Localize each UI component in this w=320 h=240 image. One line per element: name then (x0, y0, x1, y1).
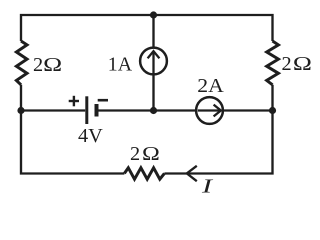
svg-text:2A: 2A (197, 75, 224, 97)
svg-text:2: 2 (282, 53, 292, 75)
svg-text:Ω: Ω (43, 54, 62, 76)
svg-text:4V: 4V (78, 125, 103, 147)
svg-text:Ω: Ω (142, 143, 160, 165)
svg-text:1A: 1A (108, 53, 133, 75)
svg-text:2: 2 (130, 143, 140, 165)
svg-text:Ω: Ω (293, 53, 312, 75)
svg-text:I: I (201, 175, 214, 197)
svg-text:2: 2 (33, 54, 43, 76)
